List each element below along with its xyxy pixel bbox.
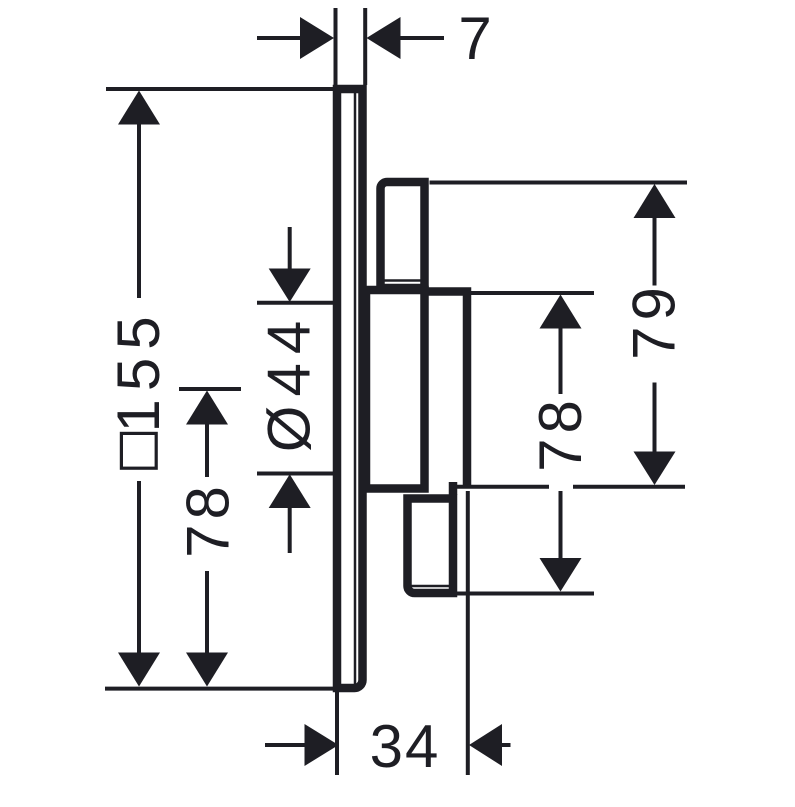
dim 34: right-pointing arrowhead [305, 724, 339, 766]
top handle chamfer line [385, 279, 422, 282]
dim 7: right-pointing arrowhead [300, 17, 334, 59]
dim 78 right: top reference line [470, 291, 594, 295]
dim 79: lower line segment [653, 383, 657, 453]
dim 44: bottom reference tick [257, 472, 334, 476]
dim 44: label [256, 312, 323, 452]
wall plate inner edge line [354, 93, 357, 684]
dim 7: left extension line above plate [334, 8, 338, 85]
dim 44: top arrow stem [288, 227, 292, 270]
svg-text:34: 34 [370, 713, 441, 780]
dim 34: left extension line below plate [335, 692, 339, 775]
dim 78 left: up arrowhead [186, 391, 228, 425]
dim 78 left: center reference tick [179, 387, 241, 391]
dim 7: left-pointing arrowhead [367, 17, 401, 59]
valve body front section [425, 292, 468, 487]
dim 79: top reference line [430, 181, 688, 185]
dim 79: label [621, 281, 688, 360]
dim 155: label [105, 308, 172, 432]
dim 155: down arrowhead [118, 653, 160, 687]
dim 34: right extension line below body [466, 491, 470, 775]
dim 78 right: up arrowhead [540, 295, 582, 329]
dim 155: lower line segment [137, 481, 141, 653]
svg-text:78: 78 [175, 481, 242, 558]
dim 7: right leader segment [400, 36, 444, 40]
dim 79: down arrowhead [634, 452, 676, 486]
svg-text:78: 78 [527, 395, 594, 472]
dim 7: left leader segment [257, 36, 301, 40]
dim 78 left: label [175, 481, 242, 558]
bottom handle chamfer line [412, 585, 450, 588]
dim 155: upper line segment [137, 124, 141, 298]
dim 44: bottom arrow stem [288, 508, 292, 554]
dim 78 right: upper line segment [559, 328, 563, 394]
svg-text:155: 155 [105, 308, 172, 432]
valve body rear section [366, 290, 425, 489]
svg-text:79: 79 [621, 281, 688, 360]
dim 79: upper line segment [653, 218, 657, 286]
dim 78 right: label [527, 395, 594, 472]
dim 78 right: bottom reference line [450, 592, 594, 596]
bottom handle knob [408, 499, 454, 594]
dim 78 right: lower line segment [559, 491, 563, 558]
svg-text:7: 7 [458, 5, 491, 72]
dim 34: left-pointing arrowhead [469, 724, 502, 766]
dim 155: square symbol [121, 433, 156, 468]
dim 78 right: down arrowhead [540, 558, 582, 592]
dim 44: top reference tick [257, 301, 334, 305]
dim 78 left: down arrowhead [186, 653, 228, 687]
svg-text:Ø44: Ø44 [256, 312, 323, 452]
dim 34: right leader segment [501, 743, 511, 747]
bottom handle right edge stub behind body [449, 482, 458, 495]
top handle knob [381, 182, 425, 288]
dim 44: down arrowhead [269, 269, 311, 303]
wall plate (escutcheon 155x155x7) [337, 89, 363, 688]
dim 78 left: upper line segment [205, 424, 209, 477]
dim 79: up arrowhead [634, 184, 676, 218]
dim 34: left leader segment [265, 743, 305, 747]
dim 78 left: lower line segment [205, 571, 209, 653]
dim 155: top reference line [106, 87, 333, 91]
dim 155: bottom reference line [105, 687, 337, 691]
dim 79: bottom reference line right segment [573, 485, 685, 489]
dim 155: up arrowhead [118, 91, 160, 125]
dim 44: up arrowhead [269, 474, 311, 508]
dim 79: bottom reference line left segment [449, 485, 549, 489]
dim 7: right extension line above plate [363, 8, 367, 85]
